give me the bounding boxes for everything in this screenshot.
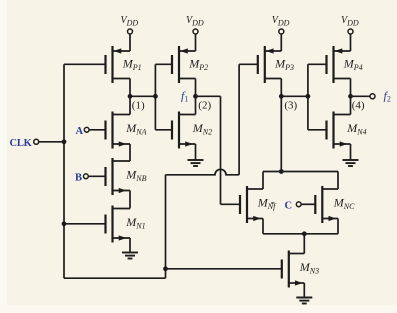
wire: node1 to MP2/MN2 gates vertical xyxy=(154,64,156,130)
node 1 junction at MP1 drain xyxy=(128,94,133,99)
wire: MP1 drain to MNA drain (node 1) xyxy=(129,79,131,115)
wire: MP3 gate vertical xyxy=(238,64,240,175)
ground under MN4 xyxy=(343,160,359,166)
transistor MN3 (evaluate) xyxy=(282,251,319,288)
wire: MN3 source to ground xyxy=(303,283,305,298)
svg-text:(3): (3) xyxy=(284,100,297,112)
wire: to MP4 gate bar xyxy=(308,63,327,65)
junction: rail to MN1 gate xyxy=(62,221,67,226)
wire: MNA source to MNB drain xyxy=(129,144,131,161)
terminal f2 output xyxy=(370,94,375,99)
wire: MNf source to bottom rail xyxy=(262,219,264,234)
node 2 junction xyxy=(193,94,198,99)
VDD terminal for MP2 xyxy=(186,15,204,51)
transistor MN1 (evaluate) xyxy=(106,206,146,243)
transistor MNB (input B) xyxy=(106,158,147,195)
wire: rail to MNC drain xyxy=(337,172,339,190)
wire: to MP2 gate bar xyxy=(155,63,172,65)
svg-text:(2): (2) xyxy=(198,100,211,112)
transistor MP4 (PMOS inverter) xyxy=(327,46,363,83)
svg-text:B: B xyxy=(75,173,82,184)
wire: CLK to MN1 gate xyxy=(64,223,106,225)
wire: node 4 to f2 terminal xyxy=(351,95,371,97)
ground under MN3 xyxy=(296,298,312,304)
wire: CLK vertical rail xyxy=(63,64,65,278)
terminal B xyxy=(84,174,89,179)
wire: CLK input to rail xyxy=(39,141,64,143)
svg-text:C: C xyxy=(285,201,292,212)
svg-text:(1): (1) xyxy=(132,100,145,112)
transistor MN4 (NMOS inverter) xyxy=(327,112,367,149)
transistor MNf (input f1) xyxy=(240,186,277,223)
wire: bottom rail to MN3 drain xyxy=(303,234,305,254)
terminal A xyxy=(84,127,89,132)
wire: node 2 to f1 drop xyxy=(196,95,221,97)
transistor MNA (input A) xyxy=(106,112,147,149)
svg-text:(4): (4) xyxy=(352,100,365,112)
wire: node 3 horizontal xyxy=(281,95,308,97)
wire: to MN4 gate bar xyxy=(308,129,327,131)
ground under MN2 xyxy=(188,160,204,166)
VDD terminal for MP4 xyxy=(341,15,359,51)
wire: MN1 source to ground xyxy=(129,238,131,253)
wire: f1 to MNf gate bar xyxy=(221,203,241,205)
wire: MN4 source to ground xyxy=(350,144,352,160)
junction: pair bottom rail xyxy=(302,231,307,236)
wire: rail to MNf drain xyxy=(262,172,264,190)
terminal C xyxy=(296,202,301,207)
wire: node 1 horizontal xyxy=(130,95,155,97)
wire: MNB source to MN1 drain xyxy=(129,191,131,209)
svg-text:A: A xyxy=(76,126,84,137)
transistor MP1 (PMOS precharge) xyxy=(106,46,142,83)
ground under MN1 xyxy=(122,253,138,259)
wire: CLK mid vertical xyxy=(165,175,167,278)
wire: CLK bottom run xyxy=(64,277,166,279)
junction: CLK on rail xyxy=(62,139,67,144)
wire: pair bottom rail xyxy=(263,233,338,235)
transistor MN2 (NMOS inverter) xyxy=(172,112,212,149)
wire: node3 to MP4/MN4 gates vertical xyxy=(307,64,309,130)
VDD terminal for MP3 xyxy=(272,15,290,51)
wire: pair top rail xyxy=(263,171,338,173)
terminal CLK xyxy=(34,139,39,144)
wire: CLK to MN3 gate xyxy=(166,268,282,270)
wire: MN2 source to ground xyxy=(195,144,197,160)
node 3 junction at gate vertical xyxy=(306,94,311,99)
VDD terminal for MP1 xyxy=(121,15,139,51)
wire: CLK horizontal with hop to MP3 gate drop xyxy=(166,169,240,174)
wire: MNC source to bottom rail xyxy=(337,219,339,234)
junction: pair top rail xyxy=(279,169,284,174)
node 1 junction at gate vertical xyxy=(153,94,158,99)
transistor MNC (input C) xyxy=(315,186,355,223)
wire: MP3 drain (node 3) xyxy=(280,79,282,97)
wire: f1 vertical drop xyxy=(220,96,222,204)
node 3 junction at MP3 drain xyxy=(279,94,284,99)
junction: CLK bottom to MN3 gate xyxy=(163,266,168,271)
node 4 junction xyxy=(348,94,353,99)
transistor MP3 (PMOS precharge) xyxy=(258,46,294,83)
svg-text:CLK: CLK xyxy=(10,138,33,149)
wire: MP4 drain to MN4 drain (node 4) xyxy=(350,79,352,115)
wire: to MN2 gate bar xyxy=(155,129,172,131)
wire: CLK to MP1 gate xyxy=(64,63,106,65)
wire: MP2 drain to MN2 drain (node 2) xyxy=(195,79,197,115)
transistor MP2 (PMOS inverter) xyxy=(172,46,208,83)
wire: node 3 down to pair top rail xyxy=(280,96,282,171)
wire: to MP3 gate bar xyxy=(239,63,258,65)
